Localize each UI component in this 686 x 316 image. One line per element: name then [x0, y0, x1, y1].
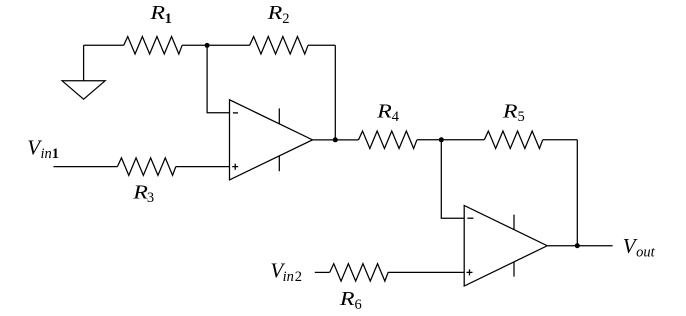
svg-text:R: R — [376, 99, 392, 122]
resistor R2 — [250, 37, 308, 55]
wire ground drop vertical — [83, 45, 85, 81]
node U1 output junction — [333, 137, 338, 142]
svg-text:1: 1 — [52, 146, 59, 162]
svg-text:R: R — [149, 1, 165, 24]
node junction R4/R5/U2 inverting — [439, 137, 444, 142]
node junction R1/R2/inverting — [205, 43, 210, 48]
wire feedback vertical down to op-amp U1 output — [334, 45, 336, 140]
svg-text:R: R — [267, 1, 283, 24]
wire Vin1 to R3 — [54, 166, 118, 168]
U1 negative supply tick — [278, 156, 280, 171]
wire R5 right to corner — [543, 139, 578, 141]
U2 inverting pin minus — [467, 217, 473, 219]
U2 non-inverting pin plus — [467, 269, 473, 275]
svg-text:2: 2 — [295, 269, 302, 285]
wire U2 output to Vout — [547, 245, 612, 247]
U2 negative supply tick — [513, 262, 515, 277]
resistor R1 — [124, 37, 182, 55]
node U2 output junction — [575, 243, 580, 248]
svg-text:in: in — [41, 146, 52, 162]
op-amp U1 — [230, 100, 313, 180]
wire Vin2 to R6 — [315, 271, 330, 273]
svg-text:6: 6 — [355, 297, 362, 313]
wire R4 to R5 through node — [417, 139, 484, 141]
wire node down to U2 inverting input — [441, 140, 464, 218]
U1 positive supply tick — [278, 108, 280, 123]
resistor R5 — [484, 131, 542, 149]
wire top-left horizontal from ground corner to R1 — [84, 44, 124, 46]
svg-text:3: 3 — [147, 190, 154, 206]
U1 inverting pin minus — [233, 112, 238, 114]
wire R3 to non-inverting input — [176, 166, 230, 168]
wire feedback vertical down to U2 output — [576, 140, 578, 246]
resistor R3 — [117, 158, 175, 176]
svg-text:2: 2 — [282, 11, 289, 27]
resistor R6 — [330, 264, 388, 282]
wire R6 to U2 non-inverting input — [388, 271, 464, 273]
svg-text:R: R — [502, 99, 518, 122]
resistor R4 — [359, 131, 417, 149]
wire node down to inverting input — [207, 45, 229, 113]
op-amp U2 — [464, 206, 547, 287]
wire R2 right to corner — [308, 44, 335, 46]
wire U1 output to R4 — [313, 139, 359, 141]
wire R1 to R2 through node — [182, 44, 250, 46]
U2 positive supply tick — [513, 215, 515, 230]
svg-text:1: 1 — [165, 11, 172, 27]
svg-text:R: R — [339, 287, 355, 310]
U1 non-inverting pin plus — [232, 164, 238, 170]
svg-text:5: 5 — [518, 109, 525, 125]
svg-text:out: out — [636, 244, 656, 260]
svg-text:4: 4 — [392, 109, 400, 125]
svg-text:in: in — [283, 269, 294, 285]
ground — [62, 81, 105, 99]
